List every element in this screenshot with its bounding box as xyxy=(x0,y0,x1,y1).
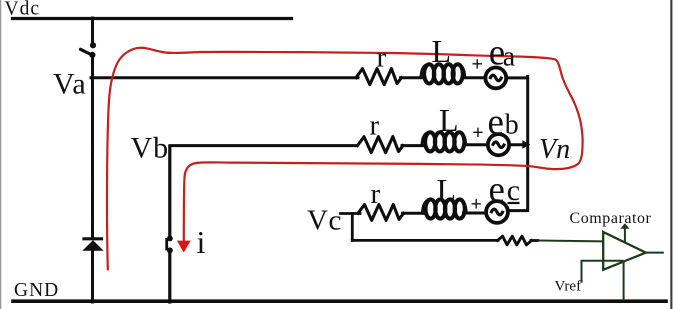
svg-text:c: c xyxy=(507,174,520,207)
svg-text:e: e xyxy=(489,169,505,210)
svg-text:GND: GND xyxy=(14,280,59,301)
svg-text:e: e xyxy=(488,102,504,143)
svg-text:Vc: Vc xyxy=(307,205,342,237)
svg-text:Comparator: Comparator xyxy=(570,210,652,227)
svg-text:Vb: Vb xyxy=(131,132,170,165)
svg-text:L: L xyxy=(437,172,457,208)
svg-text:Vn: Vn xyxy=(539,134,570,165)
svg-text:+: + xyxy=(472,122,483,144)
svg-text:+: + xyxy=(472,53,483,75)
svg-text:r: r xyxy=(371,178,381,210)
svg-text:+: + xyxy=(471,194,482,216)
svg-text:r: r xyxy=(370,110,380,142)
svg-text:Va: Va xyxy=(53,68,87,101)
svg-text:L: L xyxy=(432,33,452,69)
svg-text:a: a xyxy=(503,41,516,72)
svg-text:Vref: Vref xyxy=(555,279,582,295)
svg-text:L: L xyxy=(439,102,459,138)
svg-text:Vdc: Vdc xyxy=(5,0,41,20)
svg-text:b: b xyxy=(505,110,519,141)
svg-text:i: i xyxy=(197,224,206,260)
svg-text:r: r xyxy=(377,42,387,74)
